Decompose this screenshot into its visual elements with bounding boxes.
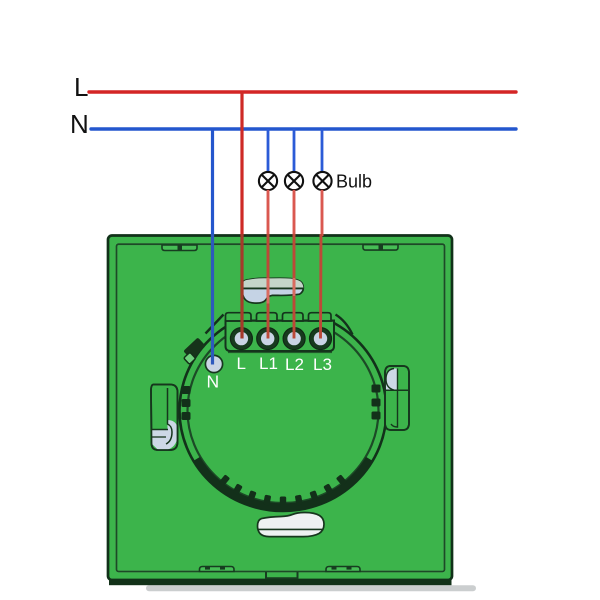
block shadow: [228, 350, 332, 354]
wire: bulb B2 to terminal L2 (white section): [293, 190, 296, 236]
top bumps: [226, 313, 252, 321]
terminal N stud: [205, 355, 222, 372]
left retaining clip: [151, 385, 178, 451]
ring upper-left latch: [183, 337, 205, 364]
terminal screw L2: [283, 328, 305, 350]
ring side teeth right: [372, 385, 381, 420]
top frame tab right: [363, 245, 398, 251]
top frame tab left: [162, 245, 197, 251]
inner frame groove: [117, 244, 445, 571]
svg-text:N: N: [207, 372, 220, 392]
wire: live feed drop (white section): [240, 92, 243, 236]
terminal screw L1: [257, 328, 279, 350]
ring ratchet teeth bottom arc: [219, 474, 347, 506]
wire: N bus to bulb B1: [267, 129, 270, 172]
wire: bulb B1 to terminal L1 (over box): [267, 234, 270, 339]
wire: N bus to bulb B3: [321, 129, 324, 172]
bottom frame centre notch: [266, 572, 298, 578]
wire: bulb B3 to terminal L3 (over box): [319, 234, 322, 339]
ring flare to block right corner: [336, 315, 353, 335]
bulb B2: [285, 172, 303, 190]
wire N (neutral bus): [91, 127, 516, 130]
wire: live feed drop (over box): [240, 234, 243, 339]
terminal screw L3: [310, 328, 332, 350]
bulb B1: [259, 172, 277, 190]
ring side teeth left: [182, 386, 191, 420]
svg-text:Bulb: Bulb: [336, 172, 372, 192]
wire: bulb B1 to terminal L1 (white section): [267, 190, 270, 236]
right retaining clip: [385, 366, 409, 430]
wire: neutral drop (over box): [211, 234, 214, 365]
svg-text:L: L: [74, 72, 88, 102]
wire B2 highlight over clamp blob: [293, 278, 296, 296]
top wire clamp blob: [242, 278, 303, 303]
svg-text:L3: L3: [313, 355, 332, 374]
bottom wire clamp blob: [258, 512, 325, 536]
wire L (live bus): [89, 90, 516, 93]
green patch hiding ring arc behind terminal block: [221, 303, 340, 322]
box outer plate: [108, 236, 452, 581]
ring flare to block left corner: [206, 315, 224, 334]
svg-text:L: L: [237, 354, 246, 373]
svg-text:L1: L1: [259, 354, 278, 373]
bottom frame tab left: [200, 567, 235, 572]
wire: N bus to bulb B2: [293, 129, 296, 172]
svg-text:N: N: [70, 109, 89, 139]
bulb B3: [313, 172, 331, 190]
bottom edge thick band: [109, 580, 452, 585]
switch module back-box body: [108, 236, 476, 592]
terminal screw L: [230, 328, 252, 350]
terminal block: [226, 313, 335, 353]
dark lower arc of ring: [197, 459, 369, 507]
wire: neutral drop (white section): [211, 129, 214, 236]
wire B1 highlight over clamp blob: [267, 278, 270, 304]
wire: bulb B2 to terminal L2 (over box): [293, 234, 296, 339]
bottom frame tab right: [326, 567, 360, 572]
shadow under box: [146, 585, 476, 591]
block body: [226, 321, 335, 352]
svg-text:L2: L2: [285, 355, 304, 374]
wire: bulb B3 to terminal L3 (white section): [321, 190, 324, 236]
mounting ring: [180, 303, 387, 511]
